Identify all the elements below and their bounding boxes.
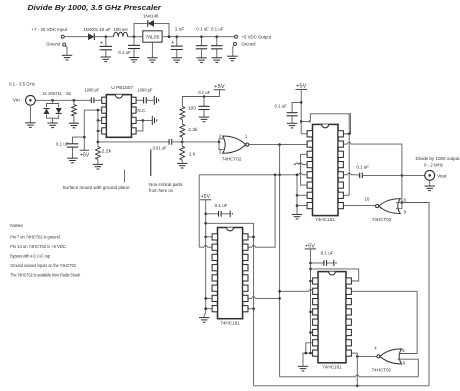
- wire node to C8: [73, 137, 85, 144]
- svg-text:2.2k: 2.2k: [188, 127, 198, 133]
- ground (R1): [69, 123, 79, 128]
- wire loop into U5 pinR1: [248, 236, 255, 239]
- wire node to C4: [201, 37, 203, 46]
- wire node to C5: [216, 37, 218, 46]
- note surface mount: [63, 185, 130, 191]
- wire +5V branch to pin2 wire: [83, 110, 85, 150]
- leader line non-critical: [150, 149, 152, 176]
- wire node to R5: [181, 142, 183, 146]
- wire gate1 input pin3: [219, 142, 223, 150]
- note line4: [10, 263, 76, 269]
- svg-text:0.1 uF: 0.1 uF: [321, 251, 334, 257]
- svg-text:74HC161: 74HC161: [220, 320, 240, 325]
- wire U5 gnd lead: [204, 313, 206, 318]
- svg-text:2.2k: 2.2k: [102, 148, 112, 154]
- label 100 uH: [113, 27, 128, 33]
- wire clamp bottom tee: [47, 115, 59, 123]
- svg-text:U PB1507: U PB1507: [111, 85, 133, 91]
- ground (U5): [199, 318, 209, 323]
- ground (U6): [298, 366, 308, 371]
- node U6 D stubs: [309, 311, 312, 334]
- wire Vout to ground: [429, 180, 431, 186]
- ground (U4): [292, 214, 302, 219]
- ground (C11): [287, 123, 297, 128]
- wire VCC loop over U4: [301, 114, 350, 134]
- wire clock into IC2 pin2: [199, 246, 212, 248]
- svg-text:+: +: [100, 40, 103, 46]
- label uPB1507: [111, 85, 133, 91]
- wire R3 to node: [181, 137, 183, 142]
- svg-text:10: 10: [365, 196, 370, 201]
- bar +5V (U6): [305, 243, 316, 249]
- svg-text:Surface mount with ground plan: Surface mount with ground plane: [63, 185, 130, 191]
- ground (78L05): [147, 58, 157, 63]
- wire U1 pin2 left: [84, 109, 101, 111]
- svg-text:Notes: Notes: [10, 223, 23, 229]
- wire U6 pin7 to gnd: [305, 343, 313, 355]
- capacitor C9 0.01uF: [169, 139, 172, 145]
- svg-text:78L05: 78L05: [145, 35, 159, 40]
- node pin6: [142, 119, 145, 122]
- inductor L1 100uH: [114, 32, 128, 36]
- wire C12 to Vout node: [362, 174, 424, 176]
- note line5: [10, 273, 80, 279]
- wire U5 pinR2 riser: [248, 175, 275, 247]
- node U3c out riser top: [356, 355, 359, 358]
- ground (C5): [212, 58, 222, 63]
- wire C13 lead: [206, 213, 219, 215]
- wire R4-R3 join: [181, 120, 183, 125]
- label 0.1 uF (C5): [211, 26, 224, 32]
- wire R5 to ground: [181, 160, 183, 163]
- wire U4 left bus B: [301, 154, 307, 185]
- ground (clamp): [47, 123, 57, 128]
- wire input to diode D1: [65, 36, 89, 38]
- wire 78L05 out to +5 rail: [162, 36, 234, 38]
- leader line surface mount: [124, 170, 126, 183]
- wire output ground to symbol: [233, 45, 234, 56]
- label 1000 pF (output): [137, 87, 152, 93]
- svg-text:+7 - 20 VDC Input: +7 - 20 VDC Input: [32, 27, 68, 33]
- wire +5V to R4: [182, 90, 219, 107]
- node loop tap (U5): [204, 222, 207, 225]
- wire gate2 to right drop: [402, 203, 429, 386]
- svg-text:Vout: Vout: [437, 173, 447, 179]
- wire bias node to C9: [98, 141, 169, 143]
- wire U5 pinR8 stub: [248, 308, 253, 310]
- ground (C2): [129, 58, 139, 63]
- node +5V branch: [83, 136, 86, 139]
- wire rail2: [254, 385, 429, 387]
- capacitor C10 0.1uF: [198, 106, 209, 109]
- +5 VDC output terminal: [235, 35, 238, 38]
- label 0.1 uF (C4): [196, 26, 209, 32]
- svg-text:0.1 uF: 0.1 uF: [356, 165, 369, 171]
- diode D1 1N4001: [88, 33, 94, 40]
- svg-text:74HCT02: 74HCT02: [222, 157, 242, 162]
- capacitor C3 1uF: [171, 46, 183, 49]
- nor gate U3c 74HCT02: [377, 349, 402, 364]
- wire C11 lead: [292, 102, 301, 112]
- label pin 8 (U3b): [404, 198, 407, 203]
- node B junction: [133, 35, 136, 38]
- wire VCC loop (U6): [311, 269, 359, 281]
- label 0.1 uF (C13): [215, 203, 228, 209]
- svg-text:Bypass with a 0.1 uF cap: Bypass with a 0.1 uF cap: [10, 254, 50, 260]
- IC U4 74HC161 body: [307, 124, 343, 215]
- capacitor C2 0.1uF: [128, 45, 140, 48]
- wire U4 pin right VCC bus: [344, 114, 351, 196]
- note line1: [10, 234, 61, 240]
- svg-text:74HCT02: 74HCT02: [372, 368, 392, 373]
- ground (C4): [196, 58, 206, 63]
- resistor R5 1k: [180, 146, 185, 160]
- wire U3b pin9 stub: [396, 208, 402, 210]
- svg-text:74HC161: 74HC161: [322, 365, 342, 370]
- node C10 tap: [203, 95, 206, 98]
- svg-text:0.01 uF: 0.01 uF: [153, 145, 167, 151]
- node bias out: [97, 141, 100, 144]
- node after 78L05: [168, 35, 171, 38]
- nor gate U3a 74HCT02: [223, 136, 249, 153]
- bar +5V (U1): [80, 149, 89, 151]
- svg-text:2x 1N5711: 2x 1N5711: [42, 91, 62, 97]
- label 0.1 uF (C11): [275, 104, 288, 110]
- wire gate1 input pin2: [219, 139, 223, 142]
- node clock tee: [278, 174, 281, 177]
- node C3: [176, 35, 179, 38]
- svg-text:0.1 uF: 0.1 uF: [211, 26, 224, 32]
- svg-text:1N4001: 1N4001: [84, 27, 99, 33]
- node C5: [216, 35, 219, 38]
- node Vout tee: [401, 174, 404, 177]
- node C4: [200, 35, 203, 38]
- label 2x 1N5711: [42, 91, 62, 97]
- wire U4 pin L4 stub: [294, 163, 307, 165]
- wire +5V vertical (U5): [205, 200, 207, 237]
- capacitor C6 1000pF: [91, 98, 94, 104]
- note non-critical parts line1: [149, 182, 183, 188]
- node loop tap (U6): [309, 268, 312, 271]
- svg-text:0.1 - 3.5 GHz: 0.1 - 3.5 GHz: [9, 82, 36, 88]
- ground (power input): [62, 55, 72, 60]
- label 0.1 uF (C12): [356, 165, 369, 171]
- label pin 5 (U3c): [402, 348, 405, 353]
- capacitor C3 1uF plus sign: [171, 40, 174, 46]
- svg-text:+5V: +5V: [214, 84, 225, 90]
- svg-text:0.1 uF: 0.1 uF: [198, 90, 210, 96]
- wire U4 pin R5 to C12: [344, 173, 360, 175]
- svg-text:74HC161: 74HC161: [315, 217, 335, 222]
- wire +5V into U5 pin16: [204, 236, 211, 239]
- node U1 pin2 bus: [97, 109, 100, 112]
- wire C10 lead: [203, 97, 205, 107]
- input ground terminal: [63, 43, 66, 46]
- capacitor C12 0.1uF: [360, 173, 363, 179]
- diode D2 1N4148: [148, 20, 154, 27]
- node VCC loop tap: [300, 120, 303, 123]
- wire node B up and over to output node (D2 branch): [134, 23, 147, 36]
- wire 78L05 ground pin: [151, 42, 153, 58]
- node U4 pin2 in: [278, 143, 281, 146]
- ground (Vin): [25, 123, 35, 128]
- ground (R2): [93, 164, 103, 169]
- label pin 3: [219, 150, 222, 155]
- label 0.1 uF (C8): [56, 141, 69, 147]
- label 74HC161 (U6): [322, 365, 342, 370]
- label 0.1 - 3.5 GHz: [9, 82, 36, 88]
- wire C8 to ground: [72, 147, 74, 158]
- svg-text:+: +: [171, 40, 174, 46]
- capacitor C14 0.1uF: [324, 260, 327, 266]
- label Divide by 1000 output: [416, 156, 460, 162]
- label 0.1 uF (C10): [198, 90, 210, 96]
- capacitor C5 0.1uF: [211, 46, 223, 49]
- label pin 1: [245, 134, 248, 139]
- wire C7 to rotated ground: [146, 99, 154, 101]
- wire U4 Q out right: [344, 142, 402, 208]
- ground rotated (U1 pin6): [152, 116, 156, 125]
- label Vin: [13, 98, 20, 104]
- wire U1 pin6 to node: [136, 119, 152, 121]
- ground (Vout): [425, 186, 435, 191]
- title text: [28, 3, 163, 12]
- wire Vin connector to ground: [29, 105, 31, 123]
- wire +5V bus down (U5): [204, 237, 211, 313]
- wire C10 to ground: [203, 110, 205, 118]
- ground (C1): [101, 57, 111, 62]
- svg-text:100: 100: [188, 106, 196, 112]
- resistor R1 51: [72, 105, 77, 117]
- svg-text:+5V: +5V: [305, 243, 316, 249]
- label 1N4001: [84, 27, 99, 33]
- wire U1 pin5 L to node: [136, 120, 143, 130]
- bar +5V (U4): [296, 88, 308, 90]
- wire R2 to ground: [97, 159, 99, 164]
- wire C11 to ground: [291, 116, 293, 124]
- node gate2 input tie: [401, 201, 404, 204]
- bar +5V (gate1): [214, 89, 225, 91]
- label pin 6 (U3c): [403, 360, 406, 365]
- svg-text:+5V: +5V: [80, 152, 90, 158]
- wire U3c out riser: [356, 353, 358, 386]
- capacitor C4 0.1uF: [196, 46, 208, 49]
- wire gate1 output: [248, 144, 307, 146]
- wire C2 to ground: [133, 49, 135, 58]
- node U6 pin16: [309, 280, 312, 283]
- wire U4 left bus A: [296, 174, 307, 215]
- label 0.1 uF (C14): [321, 251, 334, 257]
- wire +5V to U4 pin16: [301, 133, 307, 135]
- wire U6 pinR2 to gate3 pin5: [352, 291, 417, 353]
- svg-text:Ground: Ground: [242, 42, 256, 48]
- capacitor C11 0.1uF: [287, 113, 298, 116]
- wire U1 bias bus vertical: [97, 110, 99, 147]
- wire node to R1: [73, 100, 75, 104]
- label 74HCT02 (U3a): [222, 157, 242, 162]
- svg-text:1 uF: 1 uF: [175, 26, 185, 32]
- ground (C8): [67, 158, 77, 163]
- wire C9 to gate input node: [172, 141, 219, 143]
- wire clock drop: [279, 145, 281, 377]
- node bias divider: [181, 141, 184, 144]
- label 1 uF: [175, 26, 185, 32]
- label +7-20 VDC Input: [32, 27, 68, 33]
- wire U3c output left: [357, 355, 377, 357]
- label 2.2k (U1 bias): [102, 148, 112, 154]
- wire C4 to ground: [201, 49, 203, 58]
- label 1N4148: [143, 13, 159, 19]
- svg-text:Ground unused inputs on the 74: Ground unused inputs on the 74HCT02: [10, 263, 76, 269]
- capacitor C7 1000pF: [144, 97, 147, 103]
- wire C6 to U1 pin: [94, 99, 102, 101]
- ground (C10): [199, 117, 209, 122]
- label 10 uF: [99, 27, 111, 33]
- svg-text:0.1 uF: 0.1 uF: [275, 104, 288, 110]
- capacitor C1 10uF plus sign: [100, 40, 103, 46]
- wire C13 right end: [221, 211, 233, 218]
- wire +5V into U6 pin16: [311, 280, 313, 282]
- svg-text:0.1 uF: 0.1 uF: [118, 50, 131, 56]
- wire D1 to node A: [95, 36, 114, 38]
- wire node B down to C2: [133, 37, 135, 46]
- ground rotated (C7): [154, 96, 158, 105]
- wire clock line left: [199, 173, 307, 175]
- svg-text:Pin 7 on 74HCT02 is ground.: Pin 7 on 74HCT02 is ground.: [10, 234, 61, 240]
- regulator U2 78L05 box: [143, 31, 162, 42]
- output ground terminal: [234, 42, 237, 45]
- wire R1 to ground: [73, 116, 75, 123]
- ground (R5): [177, 163, 187, 168]
- wire L1 to node B: [128, 36, 143, 38]
- node U5 R8 join: [252, 307, 255, 310]
- wire C14 right end: [327, 260, 337, 267]
- svg-text:51: 51: [66, 91, 71, 97]
- svg-text:The 74HCT02 is available from: The 74HCT02 is available from Radio Shac…: [10, 273, 80, 279]
- resistor R3 2.2k: [180, 124, 185, 137]
- wire C3 to ground: [176, 50, 178, 58]
- svg-text:N.C.: N.C.: [137, 108, 146, 114]
- capacitor C8 0.1uF: [67, 144, 79, 147]
- capacitor C13 0.1uF: [219, 211, 222, 217]
- note line3: [10, 254, 50, 260]
- diode D4 1N5711 (down): [56, 108, 62, 113]
- svg-text:Non-critical parts: Non-critical parts: [149, 182, 183, 188]
- IC U6 74HC161 body: [313, 272, 352, 363]
- label 0.1 uF (C2): [118, 50, 131, 56]
- svg-text:0 - 2 MHz: 0 - 2 MHz: [424, 163, 444, 169]
- resistor R4 100: [180, 107, 185, 120]
- svg-text:1 k: 1 k: [189, 151, 196, 157]
- wire VCC loop (U5): [206, 223, 254, 385]
- svg-text:1000 pF: 1000 pF: [137, 87, 152, 93]
- wire node A down to C1: [105, 37, 107, 47]
- ground (output): [227, 56, 237, 61]
- wire rail1: [280, 375, 419, 377]
- wire +5V vertical (U4): [300, 89, 302, 133]
- node A junction: [105, 35, 108, 38]
- wire U3c pin6 loop: [398, 359, 419, 377]
- node IC2 riser: [274, 174, 277, 177]
- wire U6 pin8 gnd: [303, 352, 312, 366]
- node R1 51: [73, 99, 76, 102]
- svg-text:+5 VDC Output: +5 VDC Output: [242, 34, 272, 40]
- label 51: [66, 91, 71, 97]
- svg-text:Vin: Vin: [13, 98, 20, 104]
- wire U6 pinR8 stub: [352, 352, 358, 354]
- wire C5 to ground: [216, 49, 218, 58]
- wire U1 pin3 stub: [98, 119, 102, 121]
- label Vout: [437, 173, 447, 179]
- svg-text:Ground: Ground: [46, 41, 60, 47]
- Vin coax connector: [26, 95, 36, 105]
- node U1 pin4 bus: [97, 130, 100, 133]
- wire D2 to output node: [154, 23, 169, 36]
- wire U3b output to U4 pin9: [344, 205, 376, 207]
- svg-text:Divide by 1000 output: Divide by 1000 output: [416, 156, 460, 162]
- label +5V (U1): [80, 152, 90, 158]
- node U1 pin3 bus: [97, 119, 100, 122]
- label N.C.: [137, 108, 146, 114]
- node clamp diodes: [51, 99, 54, 102]
- IC U5 74HC161 body: [212, 228, 248, 319]
- svg-text:0.1 uF: 0.1 uF: [215, 203, 228, 209]
- svg-text:Pin 14 on 74HCT02 is +5 VDC.: Pin 14 on 74HCT02 is +5 VDC.: [10, 244, 67, 250]
- node C14 tap: [309, 262, 312, 265]
- label Ground (output): [242, 42, 256, 48]
- label pin 2: [219, 134, 222, 139]
- label 0.01 uF: [153, 145, 167, 151]
- input terminal: [61, 35, 64, 38]
- node riser rail2: [356, 385, 359, 388]
- wire +5V vertical (U6): [310, 249, 312, 353]
- wire RF line: [35, 99, 91, 101]
- wire U1 pin4 stub: [98, 130, 102, 132]
- capacitor C1 10uF: [100, 46, 113, 49]
- label 74HCT02 (U3c): [372, 368, 392, 373]
- label Ground (input): [46, 41, 60, 47]
- label 0 - 2 MHz: [424, 163, 444, 169]
- wire clock to IC2 down: [198, 175, 200, 247]
- svg-text:+5V: +5V: [296, 84, 307, 90]
- label 74HC161 (U4): [315, 217, 335, 222]
- label 100: [188, 106, 196, 112]
- label +5V (U4): [296, 84, 307, 90]
- label 78L05: [145, 35, 159, 40]
- note Notes header: [10, 223, 23, 229]
- note line2: [10, 244, 67, 250]
- node C13 tap: [204, 213, 207, 216]
- svg-text:1N4148: 1N4148: [143, 13, 159, 19]
- label pin1 (U4): [308, 119, 311, 124]
- wire C14 lead: [311, 262, 324, 264]
- wire clamp top tee: [47, 100, 59, 107]
- wire input ground to ground symbol: [66, 46, 68, 56]
- label +5 VDC Output: [242, 34, 272, 40]
- note non-critical parts line2: [149, 188, 173, 194]
- nor gate U3b 74HCT02: [376, 199, 401, 214]
- svg-text:74HCT02: 74HCT02: [372, 217, 392, 222]
- svg-text:0.1 uF: 0.1 uF: [56, 141, 69, 147]
- label +5V (gate1): [214, 84, 225, 90]
- label pin 9 (U3b): [404, 209, 407, 214]
- label pin 10: [365, 196, 370, 201]
- label pin 4: [374, 345, 377, 350]
- bar +5V (U5): [200, 199, 211, 201]
- wire clock branch to U6 pin2: [278, 290, 313, 293]
- wire U5 pinR7 to clock drop: [248, 297, 281, 300]
- label 1000 pF (input): [85, 88, 100, 94]
